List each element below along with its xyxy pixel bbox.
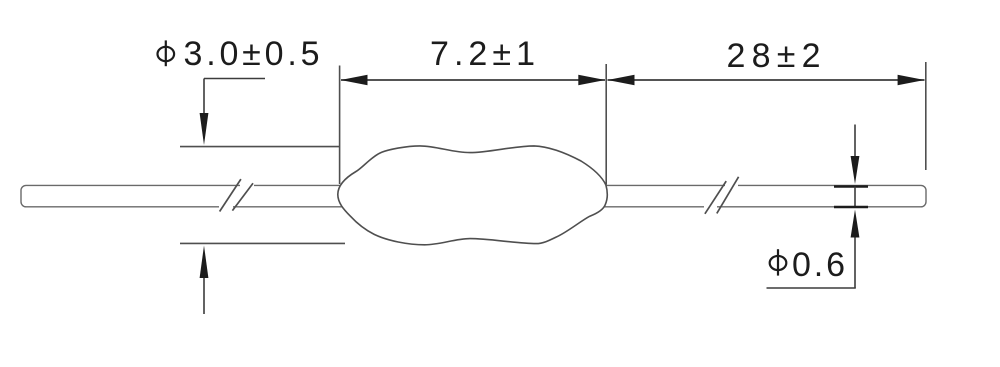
component body (peanut shape) [338,146,608,245]
tick at wire bottom [834,206,868,208]
arrow left 7.2 [341,75,368,85]
extension line shared 7.2/28 dim (x=606) [605,64,607,185]
wire break gap left [219,186,254,206]
leader vertical segment of 3.0 dim [203,79,205,114]
svg-text:7.2±1: 7.2±1 [430,35,535,73]
down arrow to wire top (0.6 dim) [851,156,860,184]
wire lead (axial, full length, rounded ends) [21,185,926,206]
up arrow to bottom extension line (3.0 dim) [200,246,209,279]
label phi symbol of 0.6 dim [770,249,787,275]
dimension line vertical through wire (0.6 dim) [854,187,856,208]
extension line left of 7.2 dim (x=340) [339,66,341,185]
dimension line 28 [608,79,925,81]
arrow right 28 [898,75,925,85]
arrow right 7.2 [578,75,605,85]
tick at wire top [834,185,868,187]
svg-text:0.6: 0.6 [792,246,845,284]
break slashes right lead [705,177,739,214]
leader horizontal segment of 3.0 dim [204,78,265,80]
extension line right of 28 dim (x=926) [925,62,927,170]
up arrow shaft (3.0 dim) [203,278,205,314]
leader horizontal under 0.6 label [767,287,856,289]
wire break gap right [704,186,738,206]
down arrow to top extension line (3.0 dim) [200,113,209,145]
up arrow to wire bottom (0.6 dim) [851,210,860,238]
dimension line 7.2 [341,79,605,81]
up arrow shaft below wire (0.6 dim) [854,238,856,289]
down arrow shaft above wire (0.6 dim) [854,125,856,158]
break slashes left lead [220,179,253,211]
extension line top of body (3.0 dim) [180,146,339,148]
label phi symbol of 3.0 dim [158,40,175,66]
extension line bottom of body (3.0 dim) [180,242,345,244]
arrow left 28 [608,75,635,85]
